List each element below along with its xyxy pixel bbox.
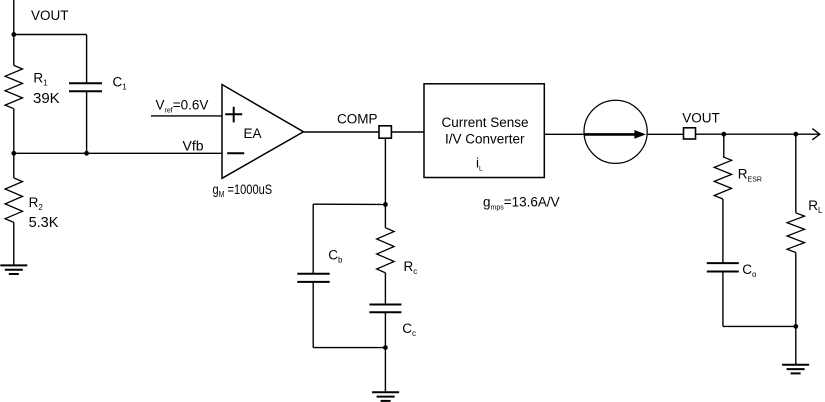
current source I1 (circle) [584, 100, 647, 163]
wire Rc to Cc [384, 273, 386, 305]
svg-text:COMP: COMP [337, 112, 378, 127]
wire Vfb rail [14, 152, 222, 154]
wire node to C1 branch [14, 34, 87, 36]
wire converter to current source [544, 133, 584, 135]
wire VOUT rail [696, 133, 819, 135]
wire R2 top lead [13, 153, 15, 178]
svg-text:5.3K: 5.3K [29, 215, 59, 231]
capacitor Cb [297, 274, 329, 282]
capacitor C1 [69, 83, 102, 91]
wire to compensation ground [384, 348, 386, 393]
ground (output) [782, 365, 809, 374]
svg-text:C1: C1 [113, 75, 128, 92]
svg-text:I/V Converter: I/V Converter [445, 131, 525, 146]
svg-text:Vref=0.6V: Vref=0.6V [156, 98, 209, 115]
node VOUT/R1/C1 junction [11, 32, 16, 37]
svg-text:gmps=13.6A/V: gmps=13.6A/V [483, 195, 560, 212]
node RL/Co/ground junction [793, 324, 798, 329]
node R1/R2 feedback junction [11, 151, 16, 156]
wire COMP to converter [391, 131, 424, 133]
wire R1 bottom lead [13, 109, 15, 154]
wire Cb top lead [312, 204, 314, 274]
wire current source to VOUT pad [647, 133, 683, 135]
svg-text:Cc: Cc [402, 321, 416, 338]
capacitor Cc [369, 305, 401, 313]
svg-text:Cb: Cb [328, 248, 343, 265]
wire Co bottom lead [722, 272, 724, 327]
wire RESR top lead [723, 134, 725, 157]
node C1/Vfb junction [84, 151, 89, 156]
wire R2 bottom lead [13, 222, 15, 265]
arrow output direction [812, 129, 820, 140]
resistor R1 [5, 65, 22, 108]
wire VOUT input from top [13, 0, 15, 35]
current source arrow [584, 130, 646, 139]
svg-text:iL: iL [476, 155, 483, 172]
wire Vref input [151, 115, 222, 117]
wire to Cb branch [313, 203, 385, 205]
wire RL bottom lead [795, 253, 797, 327]
pin COMP (square pad) [379, 126, 391, 138]
wire Rc top lead [384, 204, 386, 227]
wire C1 top lead [86, 35, 88, 84]
ground (compensation) [372, 392, 399, 401]
node Cc/Cb/ground junction [383, 345, 388, 350]
resistor R2 [5, 178, 22, 223]
wire R1 top lead [13, 35, 15, 66]
svg-text:R1: R1 [33, 71, 48, 88]
ground (below R2) [0, 265, 27, 274]
wire to output ground [795, 326, 797, 364]
svg-text:VOUT: VOUT [682, 111, 720, 126]
op-amp EA [222, 85, 304, 179]
resistor RL [787, 213, 804, 253]
op-amp minus input symbol [227, 152, 244, 154]
wire Cb to ground rail [313, 347, 385, 349]
wire Co to RL bottom rail [723, 325, 796, 327]
svg-text:gM =1000uS: gM =1000uS [213, 182, 273, 199]
node VOUT/RESR junction [721, 132, 726, 137]
wire Cc bottom lead [384, 312, 386, 347]
pin VOUT (square pad) [684, 128, 696, 139]
svg-text:Rc: Rc [404, 259, 418, 276]
svg-text:VOUT: VOUT [31, 8, 69, 23]
svg-text:Vfb: Vfb [183, 137, 204, 153]
wire Cb bottom lead [312, 282, 314, 348]
resistor Rc [377, 228, 394, 273]
wire RL top lead [795, 134, 797, 213]
op-amp plus input symbol [225, 107, 242, 123]
svg-text:RL: RL [808, 198, 823, 215]
svg-text:39K: 39K [33, 90, 60, 107]
block U1 Current Sense I/V Converter [424, 84, 544, 178]
svg-text:RESR: RESR [738, 167, 762, 184]
wire op-amp output to COMP [304, 131, 380, 133]
svg-text:EA: EA [244, 126, 262, 141]
capacitor Co [707, 263, 739, 271]
wire RESR to Co [722, 199, 724, 263]
node VOUT/RL junction [793, 132, 798, 137]
wire C1 bottom lead [86, 91, 88, 153]
node COMP/Cb/Rc junction [383, 202, 388, 207]
svg-text:R2: R2 [29, 195, 44, 212]
svg-text:Co: Co [742, 262, 757, 279]
wire COMP node drop [384, 138, 386, 204]
resistor RESR [714, 157, 731, 199]
svg-text:Current Sense: Current Sense [442, 115, 529, 130]
